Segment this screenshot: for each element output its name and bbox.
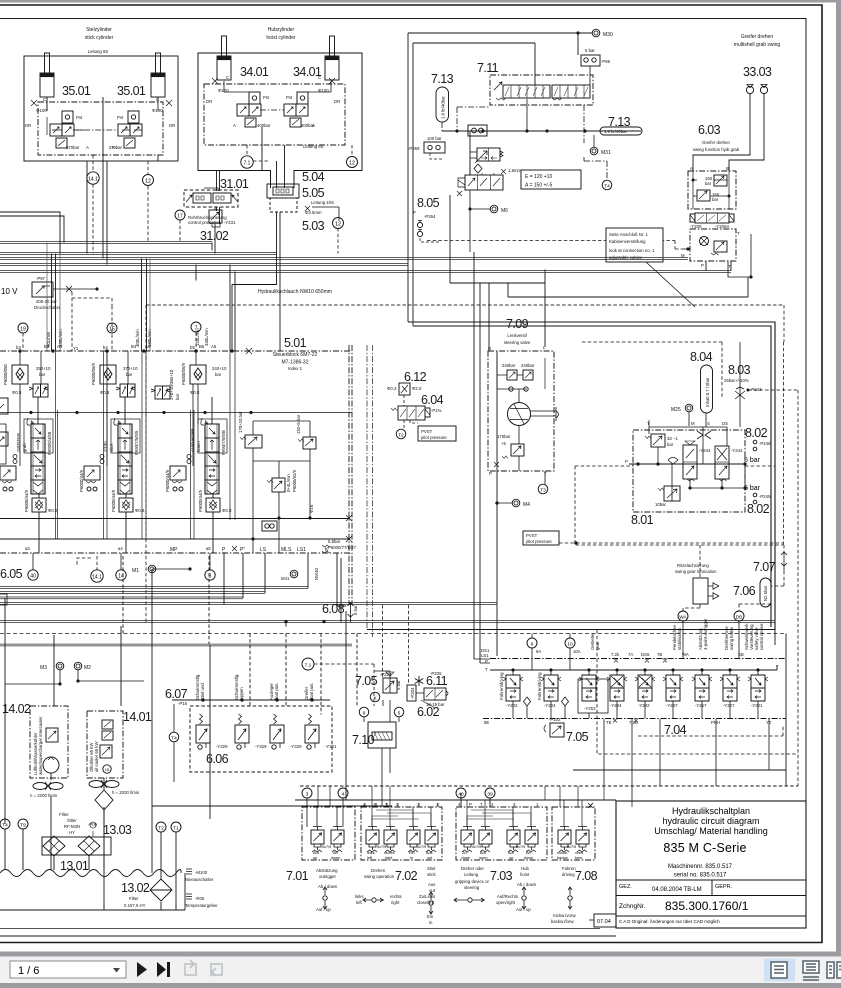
svg-text:14.1: 14.1 [92,575,102,581]
svg-text:240bar: 240bar [521,363,535,368]
circle 6 [359,707,369,717]
wires 7.04 region [474,621,739,670]
svg-text:P: P [625,459,628,464]
svg-text:Φ0.8: Φ0.8 [135,508,145,513]
circle 14.1 [91,570,103,582]
box stick cylinder section [24,56,178,161]
svg-text:7.11: 7.11 [477,61,499,75]
svg-text:7A: 7A [628,652,633,657]
box P204 [407,685,416,701]
svg-text:HY: HY [69,830,75,835]
svg-text:Auf/Rechts: Auf/Rechts [497,894,518,899]
control block border [0,345,352,605]
svg-text:Ab / down: Ab / down [517,882,537,887]
svg-text:1.0 ltr/40bar: 1.0 ltr/40bar [604,129,627,134]
joystick 7.02 horizontal [363,898,384,902]
coupler B [760,85,767,94]
svg-text:swing gear lubrication: swing gear lubrication [675,569,717,574]
svg-text:-Y204: -Y204 [544,703,556,708]
svg-text:Ab: Ab [333,851,338,855]
svg-text:4: 4 [342,792,345,798]
circle 3 [302,788,312,798]
svg-text:-Y244: -Y244 [699,448,711,453]
cooler box 14.01 [87,711,123,778]
svg-text:Abstützung: Abstützung [316,868,338,873]
solenoid valve 6.03 [690,213,734,229]
svg-text:7.07: 7.07 [753,560,776,574]
extra pilot cluster mid [151,386,170,399]
svg-text:C: C [43,97,46,102]
valve 31.01 [184,190,238,207]
accumulator capsule 7.13 [436,87,449,122]
level/temp sensors [185,870,218,908]
solenoid valve Y242 [715,446,743,481]
relief 175bar [497,434,524,459]
svg-text:31.02: 31.02 [200,229,229,243]
svg-text:T4: T4 [604,184,610,190]
circle 15 [107,323,117,333]
svg-text:-Y206A: -Y206A [715,224,729,229]
svg-text:Hydraulikschaltplan: Hydraulikschaltplan [672,806,750,816]
svg-text:M41: M41 [281,576,290,581]
svg-text:33.03: 33.03 [743,65,772,79]
valve cluster left (400bar) [233,92,271,128]
work port pairs inside block [56,351,236,539]
svg-text:6.07: 6.07 [165,687,188,701]
svg-text:110+5 bar: 110+5 bar [296,414,301,434]
svg-text:6.02: 6.02 [417,705,440,719]
valve block 5.04/5.05 [267,184,299,212]
svg-text:MP: MP [170,547,178,553]
svg-text:-Y294: -Y294 [610,703,622,708]
valve block 6.03 upper [688,171,736,209]
svg-text:1.0 ltr/40bar: 1.0 ltr/40bar [441,96,446,119]
svg-text:7.04: 7.04 [664,723,687,737]
svg-text:Y1: Y1 [73,346,79,351]
svg-text:open: open [479,856,487,860]
svg-text:-P85: -P85 [601,59,611,64]
rails inside block [0,538,350,540]
PDF viewer toolbar [0,956,841,983]
svg-text:35.01: 35.01 [117,84,146,98]
circle X [370,692,380,702]
check unit [468,125,487,136]
supply rail [295,799,616,801]
dashed pilot enclosure 8.01 [575,466,783,545]
svg-text:PVST: PVST [421,429,433,434]
svg-text:up: up [509,856,513,860]
svg-text:Hydraulikschlauch NW10 650mm: Hydraulikschlauch NW10 650mm [258,289,332,295]
port marks hoist [212,78,335,84]
joystick 7.01 [323,887,327,909]
svg-text:out: out [429,888,436,893]
svg-text:T: T [776,664,779,669]
svg-text:15: 15 [105,767,110,772]
feeder wires into groups [318,786,632,807]
svg-text:Φ0.3: Φ0.3 [387,386,397,391]
svg-text:5.5bar: 5.5bar [328,539,341,544]
svg-text:6.03: 6.03 [698,123,721,137]
svg-text:Maschinennr. 835.0.517: Maschinennr. 835.0.517 [668,864,733,870]
svg-text:h = 2000 l/min: h = 2000 l/min [112,790,140,795]
svg-text:Auf: Auf [313,851,320,855]
bus 7.04 bottom [483,718,786,720]
circle M4 [512,499,530,508]
verticals mid to bottom [123,556,357,715]
svg-text:Steuerblock 6M7-22: Steuerblock 6M7-22 [273,352,318,358]
svg-text:rückw.: rückw. [557,851,568,855]
circle 19 [18,323,28,333]
box 6.06 [190,706,332,772]
svg-text:swing operation: swing operation [364,874,395,879]
rotate icons (disabled) [185,960,222,976]
svg-text:14.01: 14.01 [123,710,152,724]
svg-text:pilot pressure: pilot pressure [526,539,552,544]
svg-text:T: T [737,231,740,236]
svg-text:kippen: kippen [239,687,244,700]
circle 7.1 [302,658,314,670]
svg-text:stick: stick [427,872,436,877]
svg-text:P: P [413,210,416,215]
svg-text:look at connection no. 1: look at connection no. 1 [609,248,655,253]
svg-text:7.01: 7.01 [286,869,309,883]
cooler box 14.02 [30,706,68,778]
svg-text:T2: T2 [158,826,164,832]
valve block 7.11 [490,75,593,105]
svg-text:in: in [410,856,413,860]
svg-text:pilot pressure: pilot pressure [421,435,447,440]
svg-text:rechts: rechts [384,851,394,855]
svg-text:6.05: 6.05 [0,567,23,581]
svg-text:gear: gear [595,641,600,650]
cross-links 7.02 [372,810,431,827]
svg-text:M25: M25 [671,407,681,413]
svg-text:Pst: Pst [76,115,83,120]
svg-text:0c7/9: 0c7/9 [322,845,331,849]
svg-text:-P97: -P97 [36,276,46,281]
svg-text:LS1: LS1 [481,653,489,658]
drops from 7.04 to pedal area [604,719,769,800]
dashed pilot drops [72,292,112,351]
svg-text:driving: driving [562,872,575,877]
spec box E/A [521,170,581,189]
spool drops [513,670,758,718]
label 7.09 [488,317,546,351]
svg-text:rechts: rechts [390,894,402,899]
svg-text:Fahren: Fahren [562,866,576,871]
svg-text:Pst: Pst [286,95,293,100]
svg-text:10: 10 [567,642,573,648]
svg-text:Niveauschalter: Niveauschalter [185,877,214,882]
svg-text:9: 9 [531,642,534,648]
svg-text:6.11: 6.11 [426,674,448,688]
svg-text:0c7/9: 0c7/9 [516,845,525,849]
svg-text:7.02: 7.02 [395,869,418,883]
svg-text:T4: T4 [171,736,177,742]
svg-text:multishell grab swing: multishell grab swing [734,42,781,48]
svg-text:GEZ.: GEZ. [619,884,632,890]
steering valve box [488,351,554,471]
label Greifer drehen multishell grab swing [734,34,781,48]
valve 6.06 #1 [196,714,210,749]
lubrication block [693,578,719,604]
svg-text:DR: DR [25,123,31,128]
check 7.07 [781,551,787,571]
svg-text:NW40: NW40 [314,567,319,580]
svg-text:7.06: 7.06 [733,584,756,598]
svg-text:bar: bar [705,181,712,186]
circle M3 [40,662,64,671]
main spool STIEL [114,418,132,494]
svg-text:links: links [355,894,364,899]
svg-text:6.12: 6.12 [404,370,427,384]
svg-text:Filter: Filter [59,812,69,817]
svg-text:bar: bar [712,197,719,202]
svg-text:Φ3.5mm: Φ3.5mm [305,210,322,215]
svg-text:P990/7/5/9/5: P990/7/5/9/5 [134,430,139,455]
svg-text:A3: A3 [57,344,63,349]
svg-text:7B: 7B [657,652,662,657]
svg-text:T2: T2 [398,433,404,439]
wires prop area [470,161,504,209]
svg-text:-P204: -P204 [410,687,415,699]
svg-text:240+10: 240+10 [212,366,227,371]
svg-text:WA: WA [679,615,687,620]
svg-text:M4: M4 [523,502,530,508]
svg-text:float pos.: float pos. [309,683,314,700]
svg-text:8.04: 8.04 [690,350,713,364]
svg-text:bar: bar [39,372,46,377]
diamonds after driving spools [524,697,569,706]
fan 14.01 [89,780,119,788]
svg-text:P: P [374,802,377,807]
svg-text:7.08: 7.08 [575,869,598,883]
svg-text:a3: a3 [25,546,30,551]
spool top rail [0,412,352,414]
dash-dot pilot lines [442,105,607,180]
svg-text:B4: B4 [131,344,137,349]
circle T2 [156,822,166,832]
5 bar gauge block P85 [581,48,611,66]
svg-text:0c7/9: 0c7/9 [377,845,386,849]
left port labels [481,648,490,672]
svg-text:C: C [226,75,229,80]
wires coolers [5,598,121,870]
wires hoist section [224,81,331,104]
svg-text:40: 40 [30,574,36,580]
valve 6.06 #2 [235,714,249,749]
accumulator capsule 8.04 [701,365,713,413]
svg-text:Hub: Hub [521,866,529,871]
svg-text:13.03: 13.03 [103,823,132,837]
svg-text:A: A [112,145,115,150]
svg-text:7.1: 7.1 [244,161,251,167]
inner frame bottom line [0,935,616,937]
single page layout icon (selected) [764,959,795,982]
partial spool left edge [0,424,6,464]
svg-text:T: T [385,802,388,807]
svg-text:370+10: 370+10 [123,366,138,371]
svg-text:P6000/06/9: P6000/06/9 [91,362,96,385]
svg-text:835.300.1760/1: 835.300.1760/1 [665,899,749,913]
vertical texts 7.04 [590,618,764,650]
svg-text:Φ16: Φ16 [309,504,314,513]
svg-text:Zu/Links: Zu/Links [419,894,435,899]
svg-text:1 / 6: 1 / 6 [18,965,39,977]
svg-text:6.08: 6.08 [322,602,345,616]
svg-text:-Y231: -Y231 [224,220,236,225]
circle M6 [490,205,508,214]
svg-text:370bar: 370bar [66,145,80,150]
svg-text:oil cooler 65 kW: oil cooler 65 kW [94,740,99,772]
svg-text:swing function hydr.grab: swing function hydr.grab [693,147,740,152]
svg-text:A5: A5 [211,344,217,349]
svg-text:P6000/77/9/87: P6000/77/9/87 [328,545,357,550]
svg-text:6: 6 [363,711,366,717]
svg-text:stabilisation: stabilisation [677,627,682,650]
svg-text:M30: M30 [603,32,613,38]
svg-text:8.02: 8.02 [745,426,768,440]
filter unit 13.01 [42,836,111,856]
svg-text:8.05: 8.05 [417,196,440,210]
svg-text:float pos.: float pos. [274,683,279,700]
svg-text:close/left: close/left [417,900,435,905]
svg-text:8.01: 8.01 [631,513,654,527]
svg-text:39: 39 [487,792,493,798]
pressure switch P97 [1,276,61,310]
relief 33bar [645,434,678,447]
svg-text:A: A [86,145,89,150]
circle 7 [191,322,201,332]
svg-text:07.04: 07.04 [597,919,611,925]
svg-text:bar: bar [175,393,180,400]
svg-text:T4: T4 [2,823,8,829]
circle DB [734,611,744,621]
svg-text:5: 5 [398,711,401,717]
svg-text:vorw.: vorw. [575,851,584,855]
svg-text:Auf: Auf [508,851,515,855]
svg-text:5 bar: 5 bar [744,457,761,464]
circle 39 [485,788,495,798]
wire corner left [0,212,64,254]
svg-text:5.03: 5.03 [302,219,325,233]
svg-text:T3: T3 [540,488,546,494]
spool outer frames [24,419,53,453]
svg-text:T1: T1 [173,826,179,832]
svg-text:Φ0.8: Φ0.8 [190,390,200,395]
dash-dot valve box [38,102,163,155]
check diamond [668,458,678,465]
svg-text:8.02: 8.02 [747,502,770,516]
cylinder left 35.01 [40,53,54,97]
svg-text:P6000/050: P6000/050 [3,364,8,385]
svg-text:Leitung 8S: Leitung 8S [88,49,109,54]
circle T3 [538,484,548,494]
svg-text:-Y253: -Y253 [584,706,596,711]
svg-text:Auf: Auf [480,851,487,855]
svg-text:PVST: PVST [526,533,538,538]
svg-text:370bar: 370bar [109,145,123,150]
svg-text:9E: 9E [484,720,489,725]
svg-text:Φ0.8: Φ0.8 [12,390,22,395]
svg-text:400bar: 400bar [257,123,271,128]
gauges 8.05 P264 [413,210,436,237]
wire top [408,33,592,326]
svg-text:-Y282: -Y282 [638,703,650,708]
svg-text:10 V: 10 V [1,287,18,296]
svg-text:R: R [488,346,491,351]
svg-text:Hubzylinder: Hubzylinder [268,27,295,33]
cylinder left 34.01 [217,36,231,80]
cylinder right 35.01 [151,53,165,97]
svg-text:A: A [690,166,693,171]
svg-text:PNH: PNH [711,720,720,725]
wires mid components [253,421,310,553]
svg-text:7.13: 7.13 [431,72,454,86]
svg-text:340L/min: 340L/min [204,328,209,346]
spool feed wires [38,397,213,553]
valve 31.02 with text [188,210,236,227]
dashed drops hoist circles [180,145,352,254]
svg-text:5.04: 5.04 [302,170,325,184]
solenoid valve Y244 [683,441,711,481]
svg-text:26bar+/-10%: 26bar+/-10% [724,378,749,383]
relief cluster b4 [100,365,116,384]
valve 6.11 [424,688,448,707]
valve cluster right (400bar) [284,92,315,128]
svg-text:links: links [367,851,375,855]
bus 7.04 dashdot [490,658,786,660]
svg-text:GEPR.: GEPR. [715,884,733,890]
port X marks [31,100,172,106]
svg-text:1.8mm: 1.8mm [508,168,522,173]
svg-text:15: 15 [109,327,115,333]
dashed drops to circles [93,155,148,254]
cylinder right 34.01 [325,36,339,80]
svg-text:down: down [331,856,340,860]
svg-text:9A: 9A [536,649,541,654]
circle 5 [394,707,404,717]
svg-text:-Y329: -Y329 [255,744,267,749]
svg-text:Stiel: Stiel [427,866,435,871]
svg-text:M2: M2 [84,665,91,671]
circle M25 [671,404,693,413]
svg-text:LS1: LS1 [297,547,306,553]
svg-text:down: down [524,856,533,860]
filter 7.10 [368,722,396,748]
group 7.03 [456,807,547,860]
svg-text:hoist cylinder: hoist cylinder [266,35,296,41]
feeder verticals into control block [52,254,236,352]
circle 8 [205,570,215,580]
svg-text:5 bar: 5 bar [585,48,595,53]
svg-text:7.05: 7.05 [566,730,589,744]
page number combobox [10,961,126,978]
svg-text:10bar: 10bar [655,502,667,507]
svg-text:-P269: -P269 [408,146,420,151]
check diamond 14.01 [95,790,113,810]
svg-text:TE: TE [606,720,612,725]
label Hubzylinder hoist cylinder [266,27,296,41]
wires 6.03 lower [684,234,751,277]
svg-text:Ein: Ein [409,851,415,855]
check valve 6.08 [348,602,359,622]
verticals into tank [5,645,210,910]
svg-text:4-point-outrigger: 4-point-outrigger [703,618,708,650]
svg-text:0c7/9: 0c7/9 [417,845,426,849]
svg-text:control device: control device [759,623,764,650]
svg-text:Temperaturgeber: Temperaturgeber [185,903,218,908]
